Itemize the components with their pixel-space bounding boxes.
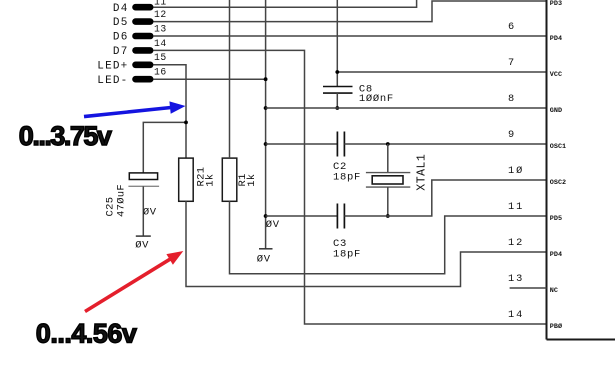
svg-text:ØV: ØV bbox=[266, 219, 280, 231]
wire C25 bottom to ground bbox=[142, 186, 144, 236]
annotation arrow blue bbox=[84, 101, 186, 116]
svg-text:16: 16 bbox=[154, 67, 167, 78]
svg-text:0...3.75v: 0...3.75v bbox=[19, 121, 112, 151]
svg-text:PBØ: PBØ bbox=[550, 322, 562, 331]
svg-text:D5: D5 bbox=[113, 17, 129, 29]
svg-text:D4: D4 bbox=[113, 3, 129, 15]
capacitor C2 bbox=[333, 132, 361, 184]
svg-text:PD3: PD3 bbox=[550, 0, 562, 8]
svg-text:1Ø: 1Ø bbox=[508, 165, 524, 177]
junction C3 row / XTAL bbox=[386, 214, 390, 218]
svg-text:PD4: PD4 bbox=[550, 35, 562, 43]
svg-text:13: 13 bbox=[508, 273, 524, 285]
connector SV1 pin 15 pad bbox=[132, 62, 153, 69]
svg-text:15: 15 bbox=[154, 52, 167, 63]
wire D4 row bbox=[154, 0, 417, 7]
junction LED- / 0V bbox=[264, 77, 268, 81]
connector SV1 pin 12 pad bbox=[132, 18, 153, 25]
wire XTAL top bbox=[387, 144, 389, 173]
wire D7 row down to PB0 pin14 bbox=[154, 50, 547, 324]
svg-text:VCC: VCC bbox=[550, 71, 562, 79]
svg-text:ØV: ØV bbox=[257, 253, 271, 265]
wire ground vertical net 0V bbox=[265, 0, 267, 249]
svg-text:1ØØnF: 1ØØnF bbox=[359, 93, 394, 105]
svg-text:D7: D7 bbox=[113, 46, 129, 58]
wire C8 bottom to GND row bbox=[336, 93, 338, 108]
capacitor C8 bbox=[323, 83, 394, 105]
annotation arrow red bbox=[85, 251, 183, 312]
svg-text:PD4: PD4 bbox=[550, 251, 562, 259]
junction OSC1 row / 0V bbox=[264, 142, 268, 146]
wire D6 row to PD4 pin6 bbox=[154, 35, 547, 37]
svg-text:11: 11 bbox=[508, 201, 524, 213]
wire GND row pin8 bbox=[266, 107, 547, 109]
wire C3 row to OSC2 jog bbox=[344, 180, 546, 216]
svg-text:NC: NC bbox=[550, 287, 558, 295]
svg-text:12: 12 bbox=[508, 237, 524, 249]
svg-text:13: 13 bbox=[154, 23, 167, 34]
wire R1 top from top edge bbox=[229, 0, 231, 158]
svg-text:6: 6 bbox=[508, 21, 516, 33]
svg-text:XTAL1: XTAL1 bbox=[415, 154, 428, 191]
wire OSC1 row pin9 bbox=[344, 143, 546, 145]
wire C3 row left bbox=[266, 215, 338, 217]
wire XTAL bottom bbox=[387, 187, 389, 216]
svg-text:LED-: LED- bbox=[97, 75, 128, 87]
svg-text:D6: D6 bbox=[113, 32, 129, 44]
junction LED+ / C25 bbox=[184, 121, 188, 125]
wire LED- row to ground net bbox=[154, 78, 266, 80]
svg-text:47ØuF: 47ØuF bbox=[116, 184, 128, 217]
wire LED+ down to R21 bbox=[154, 65, 187, 158]
connector SV1 pin 14 pad bbox=[132, 47, 153, 54]
svg-text:9: 9 bbox=[508, 129, 516, 141]
ground symbol 0V (right) bbox=[257, 249, 273, 266]
wire VCC row pin7 bbox=[337, 71, 546, 73]
crystal XTAL1 bbox=[366, 173, 410, 188]
junction VCC bbox=[335, 70, 339, 74]
capacitor C3 bbox=[333, 204, 361, 261]
wire R1 bottom to PD5 pin11 bbox=[230, 201, 547, 273]
IC U1 left edge bbox=[546, 0, 548, 340]
IC pin 13 stub NC bbox=[510, 287, 547, 289]
svg-text:0...4.56v: 0...4.56v bbox=[36, 318, 137, 348]
connector SV1 pin 16 pad bbox=[132, 76, 153, 83]
svg-text:1k: 1k bbox=[246, 174, 258, 187]
resistor R1 bbox=[222, 158, 257, 201]
svg-text:ØV: ØV bbox=[135, 239, 149, 251]
wire C25 branch bbox=[143, 122, 186, 172]
svg-text:7: 7 bbox=[508, 57, 516, 69]
IC U1 bottom edge bbox=[547, 339, 615, 341]
svg-text:12: 12 bbox=[154, 9, 167, 20]
ground symbol 0V (C25) bbox=[135, 236, 151, 251]
wire D5 row to PD3 bbox=[154, 1, 547, 22]
junction GND row / 0V bbox=[264, 106, 268, 110]
svg-text:GND: GND bbox=[550, 107, 562, 115]
junction GND / C8 bbox=[335, 106, 339, 110]
svg-text:14: 14 bbox=[508, 309, 524, 321]
wire VCC vertical from top bbox=[336, 0, 338, 87]
junction C3 row / 0V bbox=[264, 214, 268, 218]
svg-text:18pF: 18pF bbox=[333, 172, 361, 184]
svg-text:14: 14 bbox=[154, 38, 167, 49]
junction OSC1 / XTAL bbox=[386, 142, 390, 146]
connector SV1 pin 13 pad bbox=[132, 33, 153, 40]
svg-text:8: 8 bbox=[508, 93, 516, 105]
resistor R21 bbox=[179, 158, 217, 201]
wire OSC1 row left of C2 bbox=[266, 143, 338, 145]
svg-text:1k: 1k bbox=[205, 174, 217, 187]
svg-text:OSC2: OSC2 bbox=[550, 179, 566, 187]
svg-text:LED+: LED+ bbox=[97, 60, 128, 72]
capacitor C25 (electrolytic) bbox=[105, 173, 160, 217]
connector SV1 pin 11 pad bbox=[132, 4, 153, 11]
svg-text:18pF: 18pF bbox=[333, 249, 361, 261]
wire R21 bottom to PD4 pin12 bbox=[186, 201, 547, 286]
svg-text:PD5: PD5 bbox=[550, 215, 562, 223]
svg-text:OSC1: OSC1 bbox=[550, 143, 566, 151]
svg-text:ØV: ØV bbox=[143, 207, 157, 219]
